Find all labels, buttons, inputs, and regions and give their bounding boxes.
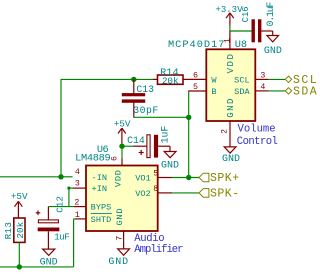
wire BYPS net to C12	[48, 206, 86, 208]
svg-text:SPK+: SPK+	[210, 172, 240, 185]
wire bottom net	[0, 266, 74, 268]
svg-text:C12: C12	[54, 196, 65, 213]
node junction C13 top	[131, 77, 136, 82]
svg-text:GND: GND	[222, 154, 240, 165]
pin VO2 name and number 8	[135, 185, 158, 199]
pin BYPS name and number 2	[74, 199, 111, 213]
svg-text:1uF: 1uF	[54, 231, 69, 242]
svg-text:SHTD: SHTD	[91, 215, 112, 225]
svg-text:VO1: VO1	[135, 173, 150, 183]
svg-text:30pF: 30pF	[133, 105, 159, 116]
pin SHTD name and number 1	[75, 211, 112, 225]
svg-text:BYPS: BYPS	[91, 203, 112, 213]
wire top horizontal to C13/R14	[61, 78, 154, 80]
svg-text:7: 7	[115, 236, 124, 241]
svg-text:5: 5	[193, 83, 198, 92]
svg-text:Volume: Volume	[238, 124, 276, 136]
svg-text:0.1uF: 0.1uF	[265, 2, 276, 27]
svg-text:GND: GND	[108, 257, 129, 268]
wire C14 to GND	[158, 146, 170, 151]
power +5V symbol at C14	[114, 119, 131, 144]
wire VO2 to SPK-	[158, 192, 200, 194]
svg-text:4: 4	[75, 168, 80, 177]
svg-text:GND: GND	[161, 160, 179, 171]
text note Volume Control	[237, 124, 278, 148]
svg-text:VDD: VDD	[114, 169, 124, 187]
ground GND under U8 pin 2	[222, 147, 240, 165]
wire vertical from top corner down to -IN junction	[60, 79, 62, 176]
capacitor C13	[122, 79, 159, 115]
capacitor C12 polarized	[36, 196, 70, 242]
svg-text:GND: GND	[226, 97, 236, 118]
node junction R13 bottom	[17, 264, 22, 269]
svg-text:4: 4	[260, 83, 265, 92]
svg-text:Control: Control	[237, 136, 278, 148]
svg-text:GND: GND	[264, 46, 282, 57]
svg-text:20k: 20k	[15, 221, 26, 238]
pin SCL name and number	[234, 71, 265, 85]
node small junction at +IN corner	[67, 187, 70, 190]
svg-text:5: 5	[153, 170, 158, 179]
hierarchical label SDA	[285, 86, 318, 99]
svg-text:Audio: Audio	[134, 233, 164, 245]
svg-text:GND: GND	[115, 208, 125, 226]
wire C12 to GND	[47, 231, 49, 249]
wire pin B stub	[188, 90, 206, 92]
svg-text:20k: 20k	[162, 75, 179, 86]
ground GND under C16	[264, 36, 282, 57]
op-amp U6 LM4889 body	[75, 144, 158, 231]
pin B name and number	[193, 83, 217, 97]
hierarchical label SPK+	[199, 172, 240, 185]
resistor R14	[158, 67, 184, 86]
svg-text:3: 3	[260, 71, 265, 80]
svg-text:W: W	[211, 75, 217, 85]
power +5V symbol at R13	[11, 191, 28, 218]
svg-text:6: 6	[110, 156, 119, 161]
pin -IN name and number 4	[75, 168, 107, 183]
svg-text:SDA: SDA	[234, 87, 250, 97]
wire VO1 to SPK+	[158, 177, 200, 179]
pin VDD U6 name and number 6	[110, 156, 123, 187]
node junction +5V C14 VDD tee	[119, 144, 124, 149]
svg-text:SPK-: SPK-	[210, 188, 240, 201]
text note Audio Amplifier	[134, 233, 183, 256]
svg-text:-IN: -IN	[92, 173, 107, 183]
pin W name and number	[193, 71, 217, 85]
svg-text:1: 1	[223, 38, 232, 43]
wire SCL pin to label	[255, 78, 285, 80]
wire U8 pin 2 to GND	[229, 121, 231, 147]
svg-text:VO2: VO2	[135, 189, 150, 199]
wire audio input net to -IN	[0, 176, 73, 178]
svg-text:8: 8	[153, 185, 158, 194]
svg-text:6: 6	[193, 71, 198, 80]
svg-text:3: 3	[75, 180, 80, 189]
svg-text:GND: GND	[40, 258, 58, 269]
svg-text:SDA: SDA	[293, 86, 318, 99]
svg-text:VDD: VDD	[226, 53, 236, 74]
op-amp U8 MCP40D17 body	[168, 39, 255, 121]
wire R14 to pin W	[183, 78, 207, 80]
svg-text:C13: C13	[136, 84, 154, 95]
pin VO1 name and number 5	[135, 170, 158, 184]
wire +5V junction to C14	[122, 145, 147, 147]
svg-text:+IN: +IN	[92, 184, 107, 194]
hierarchical label SCL	[285, 74, 318, 87]
svg-text:+5V: +5V	[11, 191, 28, 202]
svg-text:SCL: SCL	[234, 75, 249, 85]
svg-text:LM4889: LM4889	[75, 152, 110, 164]
hierarchical label SPK-	[199, 188, 240, 201]
pin VDD U8 name and number 1	[223, 38, 236, 73]
svg-text:Amplifier: Amplifier	[134, 244, 183, 256]
pin GND U8 name and number 2	[220, 97, 236, 134]
pin GND U6 name and number 7	[115, 208, 125, 241]
wire C13 bottom to B-net	[133, 103, 188, 118]
pin +IN name and number 3	[75, 180, 107, 195]
wire +IN stub and riser to BYPS net	[69, 188, 86, 207]
wire C16 to GND	[261, 31, 272, 36]
svg-text:2: 2	[220, 129, 229, 134]
svg-text:C16: C16	[241, 6, 251, 22]
wire U6 pin 7 to GND	[123, 231, 125, 249]
svg-text:U8: U8	[235, 39, 247, 51]
svg-text:B: B	[211, 87, 216, 97]
svg-text:+3.3V: +3.3V	[215, 5, 243, 15]
ground GND under C12	[40, 249, 58, 268]
capacitor C16	[241, 2, 276, 43]
ground GND under C14	[161, 152, 179, 172]
svg-text:R13: R13	[3, 222, 14, 240]
wire R13 bottom lead	[18, 242, 20, 267]
ground GND under U6 pin 7	[108, 249, 129, 268]
wire B-net vertical to VO1 junction	[188, 91, 190, 178]
node junction VO1 tee	[186, 175, 191, 180]
pin SDA name and number	[234, 83, 265, 97]
wire SHTD stub elbow down to bottom net	[74, 219, 86, 267]
power +3.3V symbol	[215, 5, 243, 25]
wire SDA pin to label	[255, 90, 285, 92]
wire +5V junction down to U6 VDD pin 6	[121, 146, 123, 165]
svg-text:1uF: 1uF	[159, 126, 170, 144]
svg-text:+5V: +5V	[114, 119, 131, 130]
wire R14 left lead	[153, 78, 158, 80]
capacitor C14 polarized	[127, 126, 170, 158]
wire +3.3V to C16 and pin 1	[230, 25, 252, 49]
resistor R13	[3, 218, 26, 242]
node junction -IN tee	[58, 174, 63, 179]
node junction B-net tee	[186, 115, 191, 120]
svg-text:MCP40D17: MCP40D17	[168, 39, 225, 51]
svg-text:C14: C14	[127, 135, 145, 146]
